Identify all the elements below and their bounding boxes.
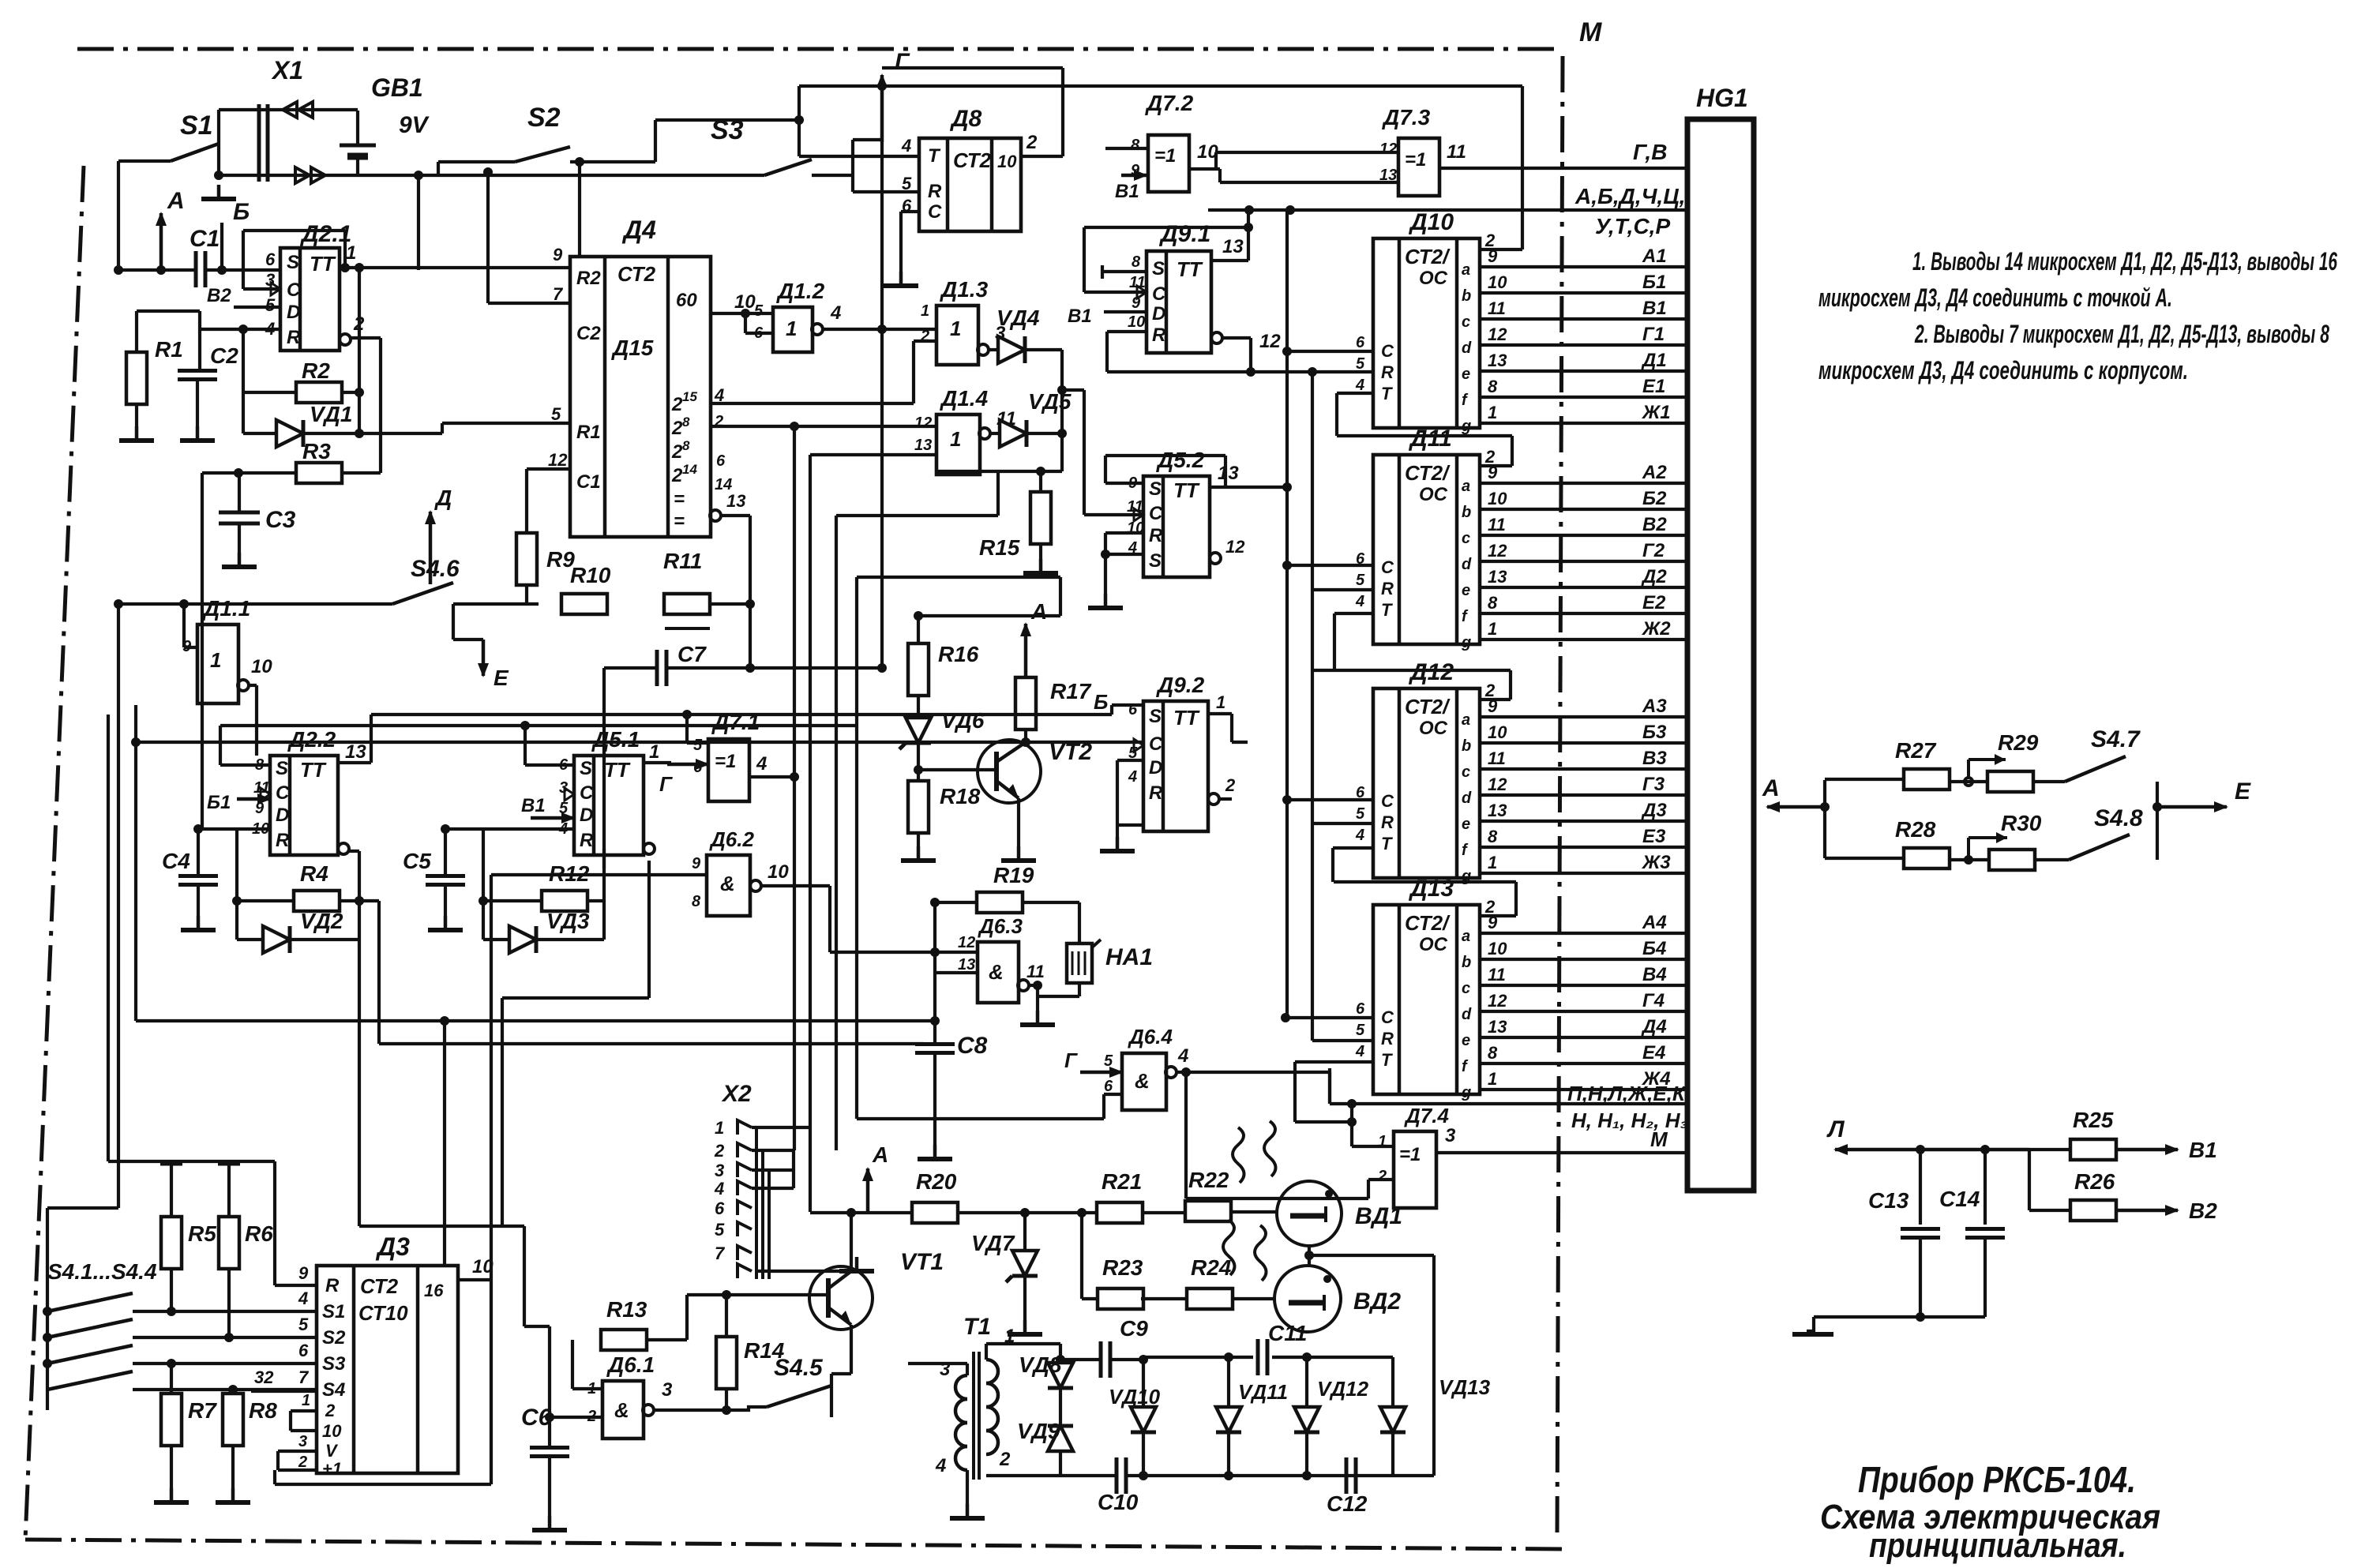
svg-text:R: R (1149, 525, 1163, 546)
wire (1229, 1210, 1278, 1214)
svg-text:S3: S3 (322, 1353, 346, 1375)
svg-text:R: R (1381, 1029, 1394, 1048)
svg-text:VД3: VД3 (546, 909, 590, 933)
svg-text:2: 2 (671, 441, 683, 463)
svg-text:1: 1 (1216, 692, 1225, 712)
svg-text:В2: В2 (1642, 514, 1667, 535)
svg-text:T: T (928, 145, 941, 167)
svg-text:12: 12 (1488, 991, 1507, 1011)
ground (222, 523, 257, 567)
capacitor C12 (1327, 1457, 1368, 1516)
svg-text:VД12: VД12 (1317, 1377, 1369, 1401)
svg-text:R28: R28 (1895, 817, 1936, 842)
svg-text:С12: С12 (1327, 1491, 1368, 1516)
radiation waves (1223, 1121, 1276, 1281)
capacitor C5 (403, 829, 465, 885)
svg-text:8: 8 (1132, 253, 1141, 271)
node B (217, 199, 250, 275)
svg-text:12: 12 (548, 450, 568, 470)
wire (846, 1208, 856, 1271)
ground (884, 272, 918, 286)
svg-text:R: R (287, 327, 301, 348)
label bus3 (1567, 1082, 1687, 1105)
svg-text:10: 10 (768, 861, 789, 883)
counter D13 (1355, 876, 1687, 1101)
svg-text:СТ2/: СТ2/ (1405, 695, 1451, 718)
svg-text:Г4: Г4 (1642, 990, 1665, 1011)
wire to B2 (2116, 1199, 2217, 1223)
wire pin13 D5.2 (1210, 463, 1292, 492)
bottom rail (986, 1471, 1434, 1480)
svg-text:Прибор РКСБ-104.: Прибор РКСБ-104. (1858, 1459, 2136, 1500)
svg-text:C: C (1381, 791, 1394, 811)
wire (810, 455, 936, 1127)
svg-text:Г3: Г3 (1642, 774, 1665, 795)
svg-text:Д11: Д11 (1408, 426, 1452, 452)
svg-text:14: 14 (682, 462, 697, 477)
svg-text:СТ2/: СТ2/ (1405, 461, 1451, 485)
svg-text:Д13: Д13 (1408, 876, 1454, 902)
svg-text:М: М (1579, 17, 1602, 47)
wire (133, 1362, 317, 1365)
wire (1186, 1072, 1330, 1104)
trunk R (1311, 372, 1314, 1041)
svg-text:R: R (1152, 324, 1166, 346)
wire pin13 D15 (710, 491, 755, 673)
svg-text:R6: R6 (245, 1221, 273, 1246)
svg-text:СТ2/: СТ2/ (1405, 245, 1451, 268)
wire (752, 1150, 794, 1188)
svg-text:Д4: Д4 (621, 216, 656, 244)
svg-text:Б3: Б3 (1642, 722, 1667, 743)
svg-text:Г: Г (659, 772, 673, 796)
node A (156, 188, 185, 275)
svg-text:1: 1 (649, 741, 659, 763)
svg-text:Ж1: Ж1 (1641, 402, 1671, 423)
capacitor C2 (178, 329, 238, 380)
wire (1304, 1246, 1314, 1266)
wire (1347, 1099, 1394, 1146)
wire (243, 329, 364, 433)
wire (417, 175, 420, 270)
svg-text:b: b (1462, 737, 1471, 755)
svg-text:Д12: Д12 (1408, 659, 1454, 685)
connector X2 (714, 1081, 752, 1278)
svg-text:R10: R10 (570, 563, 611, 587)
svg-text:8: 8 (682, 438, 690, 453)
svg-text:R16: R16 (938, 642, 979, 666)
trunk row (136, 1016, 940, 1266)
resistor R26 (2029, 1169, 2116, 1221)
resistor R4 (294, 861, 340, 911)
gate D7.4 (1377, 1104, 1449, 1208)
svg-text:10: 10 (1488, 272, 1507, 292)
switch S3 (414, 115, 812, 180)
svg-text:R: R (1381, 362, 1394, 382)
counter D3 (298, 1232, 458, 1479)
svg-text:Е: Е (2235, 778, 2251, 805)
svg-text:R5: R5 (188, 1221, 216, 1246)
svg-text:С13: С13 (1868, 1188, 1909, 1213)
svg-text:10: 10 (1488, 722, 1507, 742)
svg-text:Е: Е (494, 666, 509, 690)
svg-text:4: 4 (714, 1179, 724, 1199)
trunk C (1285, 210, 1289, 1018)
svg-text:11: 11 (1488, 965, 1506, 985)
wire C row (1026, 741, 1143, 744)
counter D10 (1355, 209, 1687, 435)
capacitor C4 (162, 829, 218, 885)
svg-text:4: 4 (1355, 377, 1364, 394)
svg-text:А4: А4 (1642, 912, 1667, 933)
svg-text:Б: Б (233, 199, 250, 225)
svg-text:S4.6: S4.6 (411, 556, 460, 582)
wire pin1 D9.2 (1208, 692, 1248, 742)
svg-text:Г,В: Г,В (1633, 140, 1667, 164)
svg-text:ТТ: ТТ (604, 758, 631, 782)
svg-text:S1: S1 (180, 111, 213, 141)
frame border bottom (25, 1540, 1570, 1549)
node E right (2157, 778, 2251, 812)
svg-text:R13: R13 (606, 1297, 647, 1322)
wire (1021, 730, 1030, 747)
svg-text:Д5.2: Д5.2 (1156, 448, 1205, 472)
diode VD10 (1109, 1360, 1161, 1476)
svg-text:R22: R22 (1188, 1168, 1229, 1192)
svg-text:13: 13 (1488, 567, 1507, 587)
svg-text:VД6: VД6 (941, 708, 985, 733)
diode VD13 (1380, 1357, 1491, 1476)
svg-text:S4.7: S4.7 (2091, 726, 2141, 752)
ground (1008, 1276, 1042, 1334)
wire (550, 1416, 602, 1419)
svg-text:А: А (1762, 775, 1780, 801)
svg-text:4: 4 (1177, 1045, 1188, 1067)
wire pin12 D9.1 (1211, 331, 1281, 372)
svg-text:6: 6 (559, 756, 569, 774)
svg-text:R: R (1381, 812, 1394, 832)
geiger tube BD1 (1277, 1181, 1402, 1246)
gate D6.4 (1104, 1025, 1173, 1110)
wire (202, 468, 381, 829)
capacitor C8 (915, 902, 988, 1059)
resistor R19 (977, 863, 1034, 913)
wire (133, 1269, 317, 1316)
wire (133, 1388, 317, 1391)
svg-text:У,Т,С,Р: У,Т,С,Р (1595, 214, 1670, 238)
svg-text:9: 9 (553, 245, 563, 264)
resistor R9 (516, 469, 575, 604)
note text line1 (1912, 247, 2337, 276)
svg-text:1: 1 (1488, 853, 1497, 872)
svg-text:СТ2: СТ2 (953, 148, 992, 172)
transistor VT1 (809, 1249, 944, 1330)
label G (1064, 1048, 1124, 1078)
svg-text:C: C (287, 279, 301, 301)
resistor R23 (1098, 1255, 1143, 1309)
label 32 (251, 1367, 317, 1391)
wire (220, 721, 857, 765)
label B1 (1115, 170, 1148, 202)
svg-text:2: 2 (325, 1401, 336, 1420)
svg-text:R: R (928, 181, 942, 202)
wire (479, 829, 604, 940)
wire pin2 D9.2 (1208, 775, 1236, 805)
svg-text:a: a (1462, 478, 1470, 495)
svg-text:16: 16 (424, 1281, 444, 1300)
gate D1.2 (754, 279, 825, 352)
capacitor C10 (1098, 1457, 1139, 1514)
top rail (1143, 1352, 1393, 1362)
svg-text:5: 5 (1356, 805, 1365, 823)
resistor R1 (126, 337, 183, 404)
wire (711, 341, 936, 405)
svg-text:Б2: Б2 (1642, 488, 1667, 509)
wire (483, 167, 493, 303)
svg-text:11: 11 (1488, 515, 1506, 535)
wire pin bottom D5.1 (644, 843, 655, 854)
svg-text:Д5.1: Д5.1 (591, 727, 640, 752)
svg-text:g: g (1461, 418, 1471, 435)
wire (711, 413, 936, 430)
svg-text:3: 3 (715, 1161, 724, 1180)
resistor R11 (663, 549, 710, 628)
svg-text:Б4: Б4 (1642, 938, 1666, 959)
svg-text:С9: С9 (1120, 1316, 1148, 1341)
svg-text:Д10: Д10 (1408, 209, 1454, 235)
wire pin10 D3 (458, 1256, 494, 1280)
svg-text:С14: С14 (1939, 1187, 1980, 1211)
svg-text:Д7.4: Д7.4 (1404, 1104, 1449, 1127)
ground (154, 1446, 189, 1502)
wire pin2 D2.1 (340, 313, 381, 473)
wire (131, 705, 1026, 1021)
resistor R12 (542, 861, 590, 911)
diode VD3 (483, 909, 604, 953)
svg-text:R24: R24 (1191, 1255, 1232, 1280)
svg-text:V: V (325, 1441, 339, 1461)
wire M (1436, 1127, 1687, 1153)
label G (659, 759, 710, 796)
svg-text:12: 12 (914, 415, 932, 432)
svg-text:Г: Г (895, 49, 910, 75)
wire (108, 1161, 275, 1164)
wire (1038, 983, 1079, 996)
svg-text:СТ2: СТ2 (617, 262, 656, 286)
svg-text:6: 6 (715, 1199, 725, 1218)
trunk wire (359, 940, 524, 1226)
svg-text:C: C (1149, 503, 1163, 524)
svg-text:R: R (325, 1275, 340, 1296)
svg-text:=1: =1 (1399, 1144, 1421, 1165)
svg-text:Е4: Е4 (1642, 1042, 1665, 1063)
svg-text:g: g (1461, 634, 1471, 651)
svg-text:2. Выводы 7 микросхем Д1, Д2,: 2. Выводы 7 микросхем Д1, Д2, Д5-Д13, вы… (1914, 320, 2329, 348)
svg-text:C: C (276, 782, 290, 804)
svg-text:С7: С7 (677, 642, 707, 666)
svg-text:&: & (720, 872, 735, 895)
resistor R13 (601, 1297, 647, 1350)
svg-text:Н, Н₁, Н₂, Н₃: Н, Н₁, Н₂, Н₃ (1571, 1108, 1688, 1132)
svg-text:e: e (1462, 1032, 1470, 1049)
svg-text:12: 12 (1488, 324, 1507, 344)
gate D6.3 (958, 914, 1023, 1003)
svg-text:Б: Б (1094, 690, 1108, 714)
diode VD9 (1017, 1419, 1073, 1451)
wire (831, 1325, 869, 1417)
svg-text:S4.1...S4.4: S4.1...S4.4 (47, 1259, 157, 1284)
svg-text:А: А (872, 1142, 888, 1167)
wire (1220, 169, 1398, 182)
label bus2 (1595, 214, 1670, 238)
svg-text:5: 5 (1356, 572, 1365, 589)
switch S4.5 (726, 1355, 831, 1417)
svg-text:В4: В4 (1642, 964, 1667, 985)
svg-text:Д1.1: Д1.1 (202, 596, 250, 621)
ground (950, 1470, 985, 1518)
svg-text:c: c (1462, 763, 1470, 781)
svg-text:13: 13 (958, 956, 975, 973)
svg-text:R25: R25 (2073, 1108, 2114, 1132)
frame border right (1557, 56, 1563, 1540)
svg-text:X1: X1 (271, 56, 303, 84)
wire (219, 110, 358, 175)
svg-text:С8: С8 (957, 1033, 988, 1059)
wire (117, 604, 120, 1208)
diode VD6 (899, 696, 985, 749)
wire pin2 D11 (1337, 393, 1512, 466)
wire (1056, 1344, 1065, 1476)
wire (1107, 332, 1147, 372)
svg-text:S3: S3 (711, 115, 744, 145)
diode VD2 (237, 909, 359, 953)
flip-flop D2.2 (252, 727, 338, 855)
svg-text:&: & (614, 1398, 629, 1422)
ground (1001, 798, 1036, 861)
wire (1080, 1213, 1083, 1299)
svg-text:R2: R2 (576, 268, 601, 289)
svg-text:3: 3 (298, 1433, 307, 1450)
resistor R20 (912, 1169, 958, 1223)
svg-text:S: S (1149, 706, 1162, 727)
svg-text:4: 4 (935, 1455, 946, 1476)
svg-text:R: R (580, 830, 594, 851)
wire pin11 D6.3 (1018, 962, 1045, 991)
svg-text:VД9: VД9 (1017, 1419, 1060, 1443)
svg-text:СТ10: СТ10 (358, 1301, 408, 1325)
diode VD4 (996, 306, 1062, 363)
transistor VT2 (978, 739, 1092, 803)
svg-text:6: 6 (716, 452, 726, 470)
svg-text:C1: C1 (576, 471, 601, 493)
wire (957, 1208, 1098, 1217)
ground (119, 404, 154, 441)
svg-text:+1: +1 (322, 1459, 342, 1479)
gate D6.1 (587, 1352, 655, 1439)
svg-text:2: 2 (671, 394, 683, 415)
wire S row (371, 705, 1143, 715)
svg-text:R26: R26 (2074, 1169, 2115, 1194)
svg-text:S: S (1149, 478, 1162, 500)
svg-text:Д9.1: Д9.1 (1158, 221, 1210, 247)
svg-text:В1: В1 (1068, 306, 1092, 327)
feedback loop D2.1 (243, 231, 350, 289)
resistor R5 (161, 1164, 216, 1269)
svg-text:4: 4 (1355, 593, 1364, 610)
ground (1792, 1317, 1833, 1334)
svg-text:&: & (989, 960, 1004, 984)
wire pin4 D1.2 (812, 302, 936, 335)
wire (291, 1411, 317, 1431)
svg-text:6: 6 (265, 249, 276, 269)
svg-text:8: 8 (1131, 137, 1140, 154)
switch S1 (118, 111, 219, 161)
R bus (1107, 367, 1373, 377)
svg-text:1. Выводы 14 микросхем Д1, Д2,: 1. Выводы 14 микросхем Д1, Д2, Д5-Д13, в… (1912, 247, 2337, 276)
svg-text:4: 4 (298, 1289, 308, 1308)
trunk wire (355, 896, 924, 1044)
trunk (107, 715, 110, 1161)
svg-text:13: 13 (914, 437, 932, 454)
connector X1 (259, 56, 325, 183)
svg-text:НG1: НG1 (1696, 84, 1748, 112)
svg-text:Д2: Д2 (1641, 566, 1667, 587)
resistor R7 (161, 1359, 217, 1446)
svg-text:VД10: VД10 (1109, 1385, 1161, 1409)
counter D8 (901, 106, 1021, 231)
resistor R22 (1185, 1168, 1231, 1221)
switch S4.6 (114, 556, 460, 609)
wire (1082, 1297, 1188, 1300)
trunk (602, 668, 606, 868)
svg-text:8: 8 (1488, 593, 1498, 613)
ground (532, 1457, 567, 1530)
svg-text:R11: R11 (663, 549, 702, 573)
ground (1100, 825, 1135, 851)
svg-text:В2: В2 (2189, 1199, 2217, 1223)
wire pin10 D7.2 (1189, 141, 1220, 169)
wire (1282, 347, 1373, 393)
wire pin4 D7.1 (749, 422, 799, 1150)
svg-text:4: 4 (714, 385, 724, 405)
svg-text:5: 5 (1356, 355, 1365, 373)
svg-text:D: D (287, 302, 300, 323)
svg-text:С5: С5 (403, 849, 431, 873)
svg-text:R1: R1 (155, 337, 183, 362)
svg-text:10: 10 (1488, 939, 1507, 958)
flip-flop D9.1 (1128, 221, 1211, 353)
wire (1282, 561, 1373, 613)
svg-text:12: 12 (1225, 537, 1245, 557)
svg-text:11: 11 (1488, 748, 1506, 768)
counter D4/D15 (548, 216, 711, 537)
svg-text:R3: R3 (302, 439, 331, 463)
svg-text:e: e (1462, 366, 1470, 383)
svg-text:С11: С11 (1268, 1321, 1307, 1345)
svg-text:2: 2 (298, 1454, 307, 1471)
svg-text:S4.5: S4.5 (774, 1355, 824, 1381)
svg-text:a: a (1462, 261, 1470, 279)
svg-text:R21: R21 (1102, 1169, 1142, 1194)
title line1 (1858, 1459, 2136, 1500)
svg-text:R23: R23 (1102, 1255, 1143, 1280)
wire (930, 898, 1079, 907)
ground (201, 185, 236, 199)
diode VD12 (1294, 1357, 1369, 1476)
svg-text:10: 10 (322, 1421, 342, 1441)
ground (181, 885, 216, 930)
wire (1309, 1254, 1434, 1257)
